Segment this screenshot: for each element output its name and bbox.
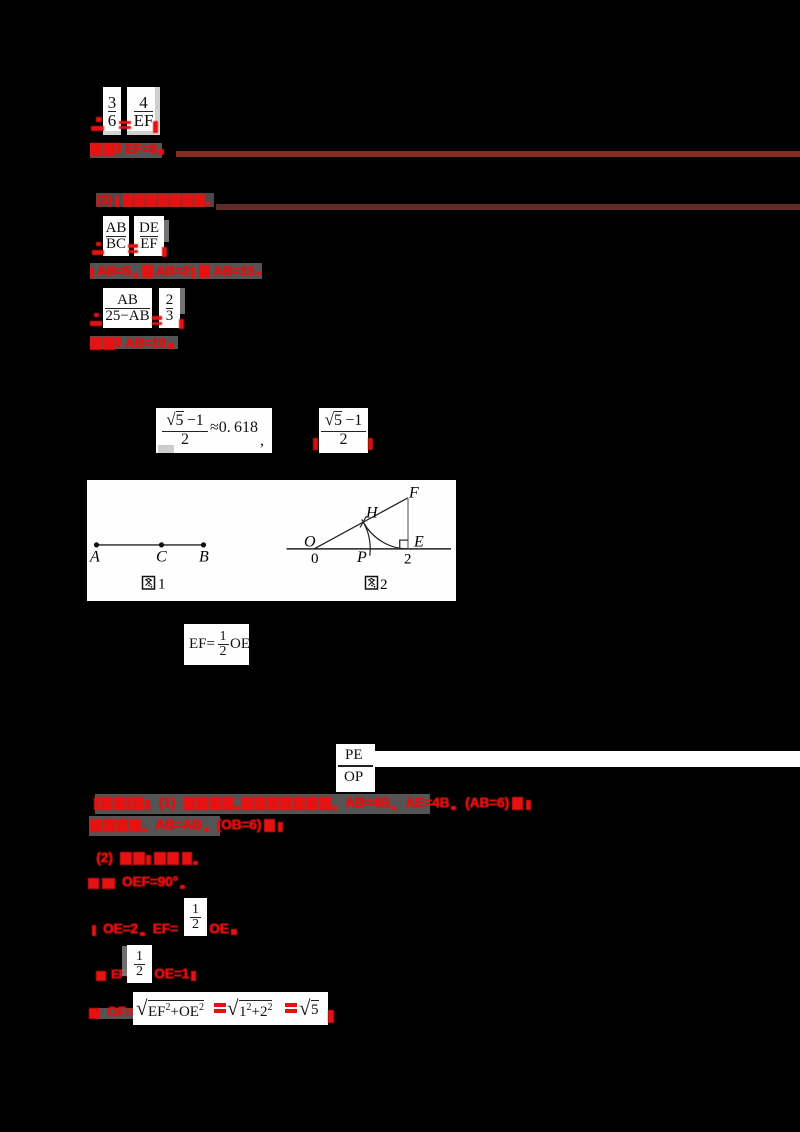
- svg-text:H: H: [365, 504, 379, 521]
- svg-text:E: E: [413, 533, 424, 550]
- section 15: answer red line 4: [88, 874, 186, 889]
- dark red horizontal line 2: [216, 204, 800, 210]
- svg-text:B: B: [199, 548, 209, 565]
- fig1 point A: [94, 542, 99, 547]
- red therefore symbol: [91, 117, 104, 131]
- white strip with radicals: [133, 992, 328, 1025]
- white box AB/BC: [103, 216, 129, 256]
- fig2 axis line: [287, 547, 452, 549]
- section 3: red line (3) triangle sim: [96, 193, 214, 207]
- svg-text:A: A: [89, 548, 100, 565]
- white box (sqrt5-1)/2 approx 0.618: [156, 408, 272, 453]
- white box 1/2: [184, 898, 207, 936]
- red equals: [119, 121, 131, 129]
- fig1 caption: [143, 576, 166, 592]
- svg-text:F: F: [408, 484, 419, 501]
- svg-text:0: 0: [311, 551, 319, 567]
- svg-text:O: O: [304, 533, 316, 550]
- fig1 point B: [201, 542, 206, 547]
- red equals: [152, 316, 162, 325]
- long white band of stretched fraction bar: [375, 751, 800, 767]
- fig2 hypotenuse OF: [314, 497, 408, 548]
- svg-text:2: 2: [404, 551, 412, 567]
- section 14: answer red line 3: [96, 850, 199, 865]
- svg-text:1: 1: [158, 576, 166, 592]
- svg-text:2: 2: [380, 577, 388, 593]
- white box 3/6: [103, 87, 121, 135]
- section 7: red jiede AB=10: [90, 336, 178, 349]
- fig2 caption: [366, 576, 388, 593]
- red comma after strip: [328, 1010, 334, 1023]
- section 2: red line jiede EF=8: [90, 143, 162, 158]
- red therefore: [90, 313, 102, 326]
- section 5: red line AB+BC=25: [90, 263, 262, 279]
- white box DE/EF: [134, 216, 164, 256]
- white box (sqrt5-1)/2: [319, 408, 368, 453]
- section 17: line EF = 1/2 OE=1: [96, 967, 132, 981]
- red tick left of second box: [313, 438, 318, 450]
- white box 4/EF: [127, 87, 160, 135]
- section 9: figure white box: [87, 480, 456, 601]
- section 12: answer red line 1: [95, 794, 430, 814]
- red comma: [153, 121, 158, 133]
- fig2 right angle mark: [400, 540, 408, 549]
- fig1 point C: [159, 542, 164, 547]
- fig2 arc centered O through H to P: [362, 519, 371, 555]
- fig2 tick across OF at H: [360, 516, 367, 528]
- white box AB/(25-AB): [103, 288, 152, 328]
- red equals: [128, 244, 138, 253]
- dark red horizontal line 1: [176, 151, 800, 157]
- section 16: line OE=2, EF= 1/2 OE: [92, 921, 178, 936]
- red comma: [162, 247, 167, 257]
- white box 1/2: [127, 945, 152, 983]
- section 10: EF = 1/2 OE box: [184, 624, 249, 665]
- fig2 vertical EF: [407, 497, 409, 548]
- white box 2/3: [159, 288, 180, 328]
- fig2 arc centered F from E to H: [363, 522, 408, 549]
- fig1 segment AB: [97, 543, 204, 545]
- section 13: answer red line 2: [89, 816, 220, 836]
- svg-text:P: P: [356, 549, 367, 566]
- svg-text:C: C: [156, 548, 167, 565]
- red tick right of second box: [368, 438, 373, 450]
- red comma: [179, 319, 184, 329]
- red therefore: [92, 242, 104, 255]
- section 11: PE/OP with long bar: [336, 744, 375, 792]
- section 18: OF = sqrt... line: [98, 1008, 133, 1019]
